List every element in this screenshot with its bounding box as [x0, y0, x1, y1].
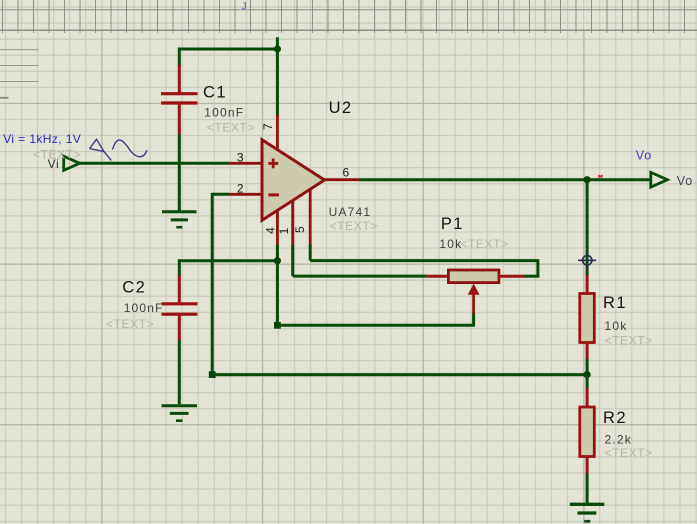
junction pin4 net — [274, 257, 281, 264]
origin marker on output net — [578, 251, 596, 269]
svg-text:<TEXT>: <TEXT> — [330, 219, 378, 233]
input terminal Vi — [64, 156, 80, 170]
svg-text:<TEXT>: <TEXT> — [605, 334, 653, 348]
svg-text:4: 4 — [263, 227, 277, 234]
resistor R2 — [580, 388, 595, 474]
svg-text:2: 2 — [237, 182, 244, 196]
ground under R2 — [570, 504, 604, 521]
wire junction to R2 — [586, 373, 589, 388]
wire P1 right riser — [536, 259, 539, 276]
wire C1 branch vertical lower to ground — [178, 133, 181, 211]
output terminal Vo — [651, 172, 668, 187]
potentiometer P1 — [427, 270, 525, 314]
wire P1 right stub — [524, 275, 540, 278]
junction output — [584, 176, 591, 183]
wire output horizontal — [359, 178, 651, 181]
ground under C1 — [162, 212, 197, 227]
op-amp minus symbol — [268, 193, 279, 196]
svg-text:10k: 10k — [439, 237, 462, 251]
svg-text:J: J — [242, 2, 247, 13]
svg-text:100nF: 100nF — [124, 301, 164, 315]
junction top rail — [274, 45, 281, 52]
wire wiper horizontal — [277, 324, 473, 327]
svg-text:7: 7 — [261, 123, 275, 130]
op-amp plus symbol — [268, 159, 278, 169]
wire R1 bottom to junction — [586, 358, 589, 376]
wire pin5 horizontal — [310, 259, 538, 262]
svg-text:U2: U2 — [329, 99, 353, 117]
wire C2 top horizontal — [178, 259, 278, 262]
svg-text:3: 3 — [237, 151, 244, 165]
svg-text:<TEXT>: <TEXT> — [106, 317, 154, 331]
wire pin1 to P1 left — [293, 275, 427, 278]
svg-text:<TEXT>: <TEXT> — [605, 446, 653, 460]
op-amp U2 body — [262, 140, 325, 220]
wire C2 vertical upper — [178, 259, 181, 276]
wire pin7 vertical — [276, 37, 279, 116]
svg-text:2.2k: 2.2k — [605, 433, 632, 447]
ground under C2 — [162, 406, 198, 421]
wire C1 branch vertical upper — [178, 48, 181, 67]
wire output vertical to R1 — [586, 180, 589, 276]
wire pin5 vertical — [309, 244, 312, 260]
capacitor C1 — [161, 65, 198, 134]
svg-text:6: 6 — [343, 165, 350, 179]
svg-text:100nF: 100nF — [204, 106, 244, 120]
wire input to pin3 — [79, 162, 230, 165]
svg-text:P1: P1 — [441, 215, 464, 233]
svg-text:Vo: Vo — [677, 174, 693, 188]
svg-text:R1: R1 — [603, 294, 627, 312]
svg-text:Vo: Vo — [636, 148, 652, 162]
red origin cross near terminal — [598, 175, 602, 177]
svg-text:R2: R2 — [603, 409, 627, 427]
op-amp U2 pin stubs — [230, 115, 359, 245]
svg-text:Vi = 1kHz, 1V: Vi = 1kHz, 1V — [3, 132, 81, 146]
svg-text:UA741: UA741 — [329, 205, 372, 219]
corner dot feedback left — [209, 371, 216, 378]
svg-text:1: 1 — [277, 227, 291, 234]
wire wiper vertical — [472, 313, 475, 327]
corner dot wiper — [274, 322, 281, 329]
wire pin4 vertical — [276, 244, 279, 325]
capacitor C2 — [162, 276, 198, 341]
wire pin2 vertical down — [211, 193, 214, 375]
left seam grid offset — [0, 50, 39, 82]
wire C2 vertical lower to ground — [178, 339, 181, 404]
svg-text:Vi: Vi — [48, 157, 60, 171]
wire feedback horizontal — [212, 373, 587, 376]
junction feedback — [584, 371, 591, 378]
wire top rail C1 to pin7 — [179, 48, 277, 51]
svg-text:5: 5 — [293, 226, 307, 233]
top band ruler seam — [0, 0, 697, 33]
svg-text:10k: 10k — [605, 319, 628, 333]
svg-text:C1: C1 — [203, 84, 227, 102]
wire pin1 vertical — [291, 244, 294, 276]
blue annotation sketch — [90, 139, 147, 160]
wire pin2 horizontal — [212, 193, 229, 196]
svg-text:<TEXT>: <TEXT> — [460, 237, 508, 251]
wire R2 bottom to ground — [586, 473, 589, 504]
resistor R1 — [580, 275, 595, 359]
svg-text:<TEXT>: <TEXT> — [207, 120, 255, 134]
svg-text:C2: C2 — [122, 279, 146, 297]
